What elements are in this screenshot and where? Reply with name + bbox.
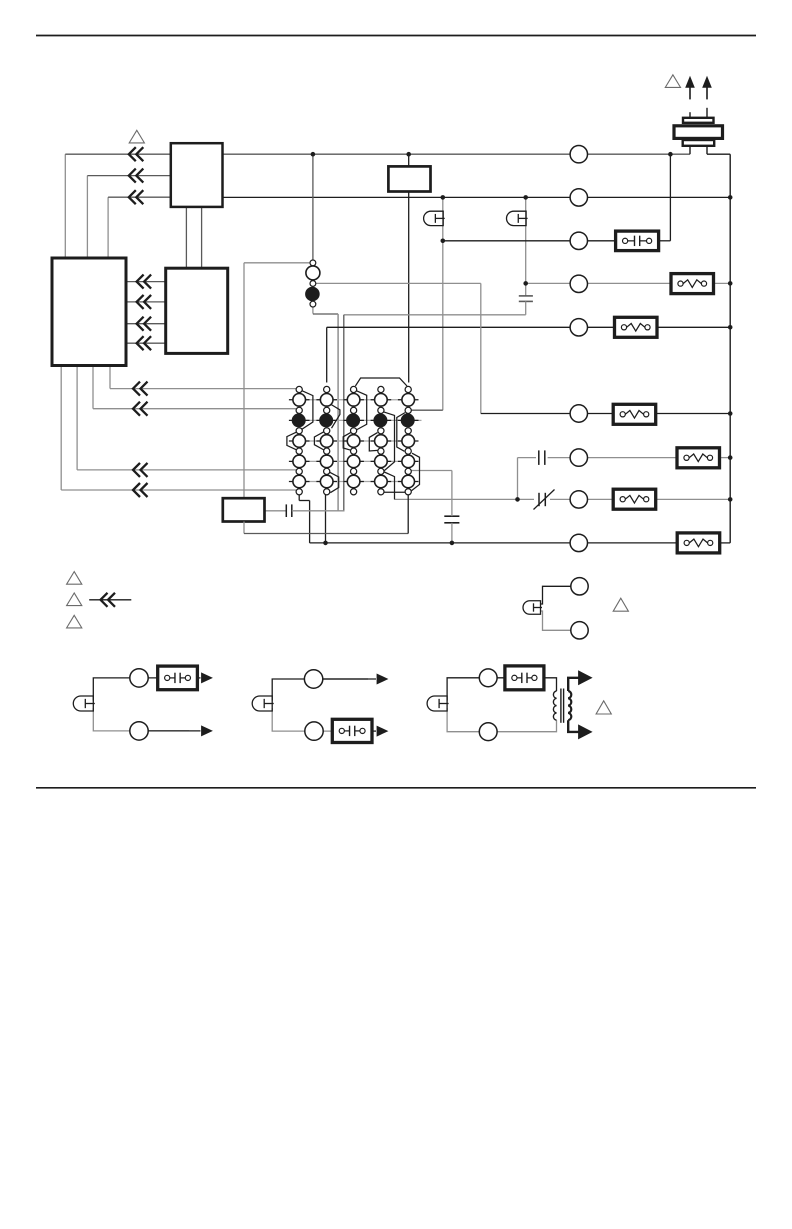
connector chevrons row3 (129, 190, 136, 204)
terminal R (570, 146, 587, 163)
wire (451, 471, 453, 517)
capacitor C4 (285, 504, 287, 517)
terminal (130, 669, 148, 687)
terminal (304, 670, 322, 688)
lamp E3 (523, 601, 541, 615)
lamp E6 (427, 696, 447, 711)
wire (108, 196, 171, 198)
wire (541, 586, 571, 604)
wire (309, 501, 311, 543)
terminal (479, 669, 497, 687)
terminal W (570, 189, 587, 206)
junction (728, 455, 733, 460)
junction (406, 152, 411, 157)
terminal C (570, 534, 587, 551)
wire (447, 678, 505, 701)
wire (198, 677, 201, 679)
wire (92, 366, 94, 409)
wire (126, 301, 166, 303)
triangle callout 4 (596, 701, 611, 714)
terminal Y (570, 232, 587, 249)
wire (109, 366, 111, 389)
wire (719, 457, 731, 459)
top rule (36, 35, 756, 37)
box U1 (main module) (52, 258, 126, 366)
capacitor box FL2 (158, 666, 198, 690)
wire (243, 522, 245, 534)
junction (728, 281, 733, 286)
arrow up 1 (689, 84, 691, 99)
wire bus (729, 154, 731, 543)
connector chevrons row2 (129, 169, 136, 183)
wire (394, 498, 534, 500)
wire (65, 153, 171, 155)
wire (443, 240, 616, 242)
wire (442, 197, 444, 410)
wire (481, 413, 613, 415)
wire (548, 457, 677, 459)
connector chevrons row1 (129, 147, 136, 161)
legend triangle 1 (67, 572, 82, 585)
capacitor C2 (538, 450, 540, 465)
arrow (578, 724, 593, 739)
wire (657, 326, 730, 328)
wire (60, 366, 62, 491)
connector chevrons (137, 336, 144, 350)
wire (326, 327, 328, 382)
wire (322, 678, 376, 680)
junction (728, 411, 733, 416)
wire (412, 409, 443, 411)
switch matrix selector paths (302, 391, 313, 430)
connector chevrons (137, 317, 144, 331)
resistor box RL6 (677, 533, 720, 553)
terminal O (570, 319, 587, 336)
resistor box RL3 (613, 404, 656, 424)
wire row R (y154) (223, 153, 691, 155)
capacitor C3 (crossed) (538, 493, 540, 506)
wire (244, 533, 408, 535)
connector chevrons (133, 382, 140, 396)
connector chevrons (133, 483, 140, 497)
lamp E2 (507, 211, 527, 225)
wire (86, 176, 88, 258)
wire (310, 542, 677, 544)
connector chevrons (133, 402, 140, 416)
wire (550, 498, 613, 500)
wire (518, 457, 537, 459)
transformer T1 (553, 691, 556, 720)
legend triangle 3 (67, 615, 82, 628)
wire (201, 207, 203, 268)
wire (517, 458, 519, 500)
box K1 (388, 166, 430, 191)
wire (64, 154, 66, 258)
wire (126, 323, 166, 325)
wire (568, 678, 578, 691)
junction (728, 497, 733, 502)
terminal (130, 722, 148, 740)
terminal (571, 622, 588, 639)
connector chevrons (137, 275, 144, 289)
arrow (201, 672, 213, 683)
wire (93, 678, 157, 701)
legend triangle 2 (67, 593, 82, 606)
wire (408, 192, 410, 383)
wire (185, 207, 187, 268)
junction (441, 195, 446, 200)
wire (706, 108, 708, 119)
capacitor box FL1 (616, 231, 659, 251)
wire (689, 112, 691, 118)
wire (272, 708, 332, 731)
capacitor C1 (plates) (519, 295, 533, 297)
wire (243, 263, 245, 498)
resistor box RL4 (677, 448, 720, 468)
wire (313, 313, 338, 315)
junction (523, 281, 528, 286)
switch S0 contacts (310, 260, 316, 266)
wire (707, 153, 730, 155)
triangle callout 1 (top-left) (129, 130, 144, 143)
wire (107, 197, 109, 258)
triangle callout 3 (613, 598, 628, 611)
wire (299, 500, 309, 502)
wire (344, 314, 526, 316)
wire (325, 495, 327, 543)
wire (93, 708, 189, 731)
resistor box RL1 (671, 274, 714, 294)
wire (337, 314, 339, 511)
wire (126, 342, 166, 344)
wire (659, 240, 671, 242)
wire (372, 730, 376, 732)
wire (327, 326, 615, 328)
terminal AUX (570, 491, 587, 508)
wire (544, 678, 557, 691)
junction (728, 195, 733, 200)
wire (87, 175, 170, 177)
wire (312, 154, 314, 260)
box U2 (171, 143, 223, 207)
wire (526, 282, 671, 284)
wire (298, 495, 300, 501)
wire (77, 469, 296, 471)
arrow up 2 (706, 84, 708, 99)
terminal (305, 722, 323, 740)
switch matrix contacts S1-S5 (296, 386, 302, 392)
wire (541, 611, 571, 630)
box K2 (223, 498, 265, 521)
terminal G (570, 275, 587, 292)
wire (148, 730, 200, 732)
capacitor box FL4 (505, 666, 544, 690)
wire (706, 146, 708, 154)
arrow (201, 725, 213, 736)
arrow (377, 674, 389, 685)
resistor box RL2 (615, 317, 658, 337)
wire (272, 679, 368, 701)
junction (323, 541, 328, 546)
bottom rule (36, 787, 756, 789)
wire (657, 413, 731, 415)
wire (411, 470, 452, 472)
wire (689, 146, 691, 154)
junction (515, 497, 520, 502)
arrow (578, 670, 593, 685)
wire (451, 523, 453, 543)
wire (265, 510, 286, 512)
wire row W (y197) (223, 196, 731, 198)
legend chevron arrow (89, 599, 131, 601)
junction (523, 195, 528, 200)
triangle callout 2 (665, 75, 680, 88)
wire (110, 388, 296, 390)
junction (441, 239, 446, 244)
terminal (571, 578, 588, 595)
wire (669, 154, 671, 241)
lamp E4 (73, 696, 93, 711)
arrow (377, 726, 389, 737)
wire (61, 489, 296, 491)
wire (713, 282, 731, 284)
resistor box RL5 (613, 489, 656, 509)
wire (525, 197, 527, 296)
junction (728, 325, 733, 330)
wire (720, 542, 730, 544)
wire (244, 262, 309, 264)
sensor X1 (stack) (683, 118, 714, 123)
box U3 (166, 268, 228, 353)
wire (657, 498, 731, 500)
junction (450, 541, 455, 546)
wire (408, 154, 410, 166)
junction (668, 152, 673, 157)
wire (76, 366, 78, 470)
connector chevrons (137, 295, 144, 309)
connector chevrons (133, 463, 140, 477)
switch matrix inter-links (299, 399, 408, 401)
lamp E1 (424, 211, 444, 225)
wire (312, 307, 314, 314)
wire (126, 281, 166, 283)
terminal (479, 723, 497, 741)
wire (568, 720, 578, 732)
wire (480, 283, 482, 413)
capacitor C5 (444, 515, 459, 517)
lamp E5 (252, 696, 272, 711)
wire (313, 282, 481, 284)
wire (447, 708, 556, 732)
wire (525, 301, 527, 314)
wire (93, 408, 296, 410)
wire (343, 315, 345, 511)
wire (292, 510, 345, 512)
wire (407, 495, 409, 534)
terminal E (570, 449, 587, 466)
capacitor box FL3 (332, 719, 372, 742)
terminal W2 (570, 405, 587, 422)
junction (311, 152, 316, 157)
